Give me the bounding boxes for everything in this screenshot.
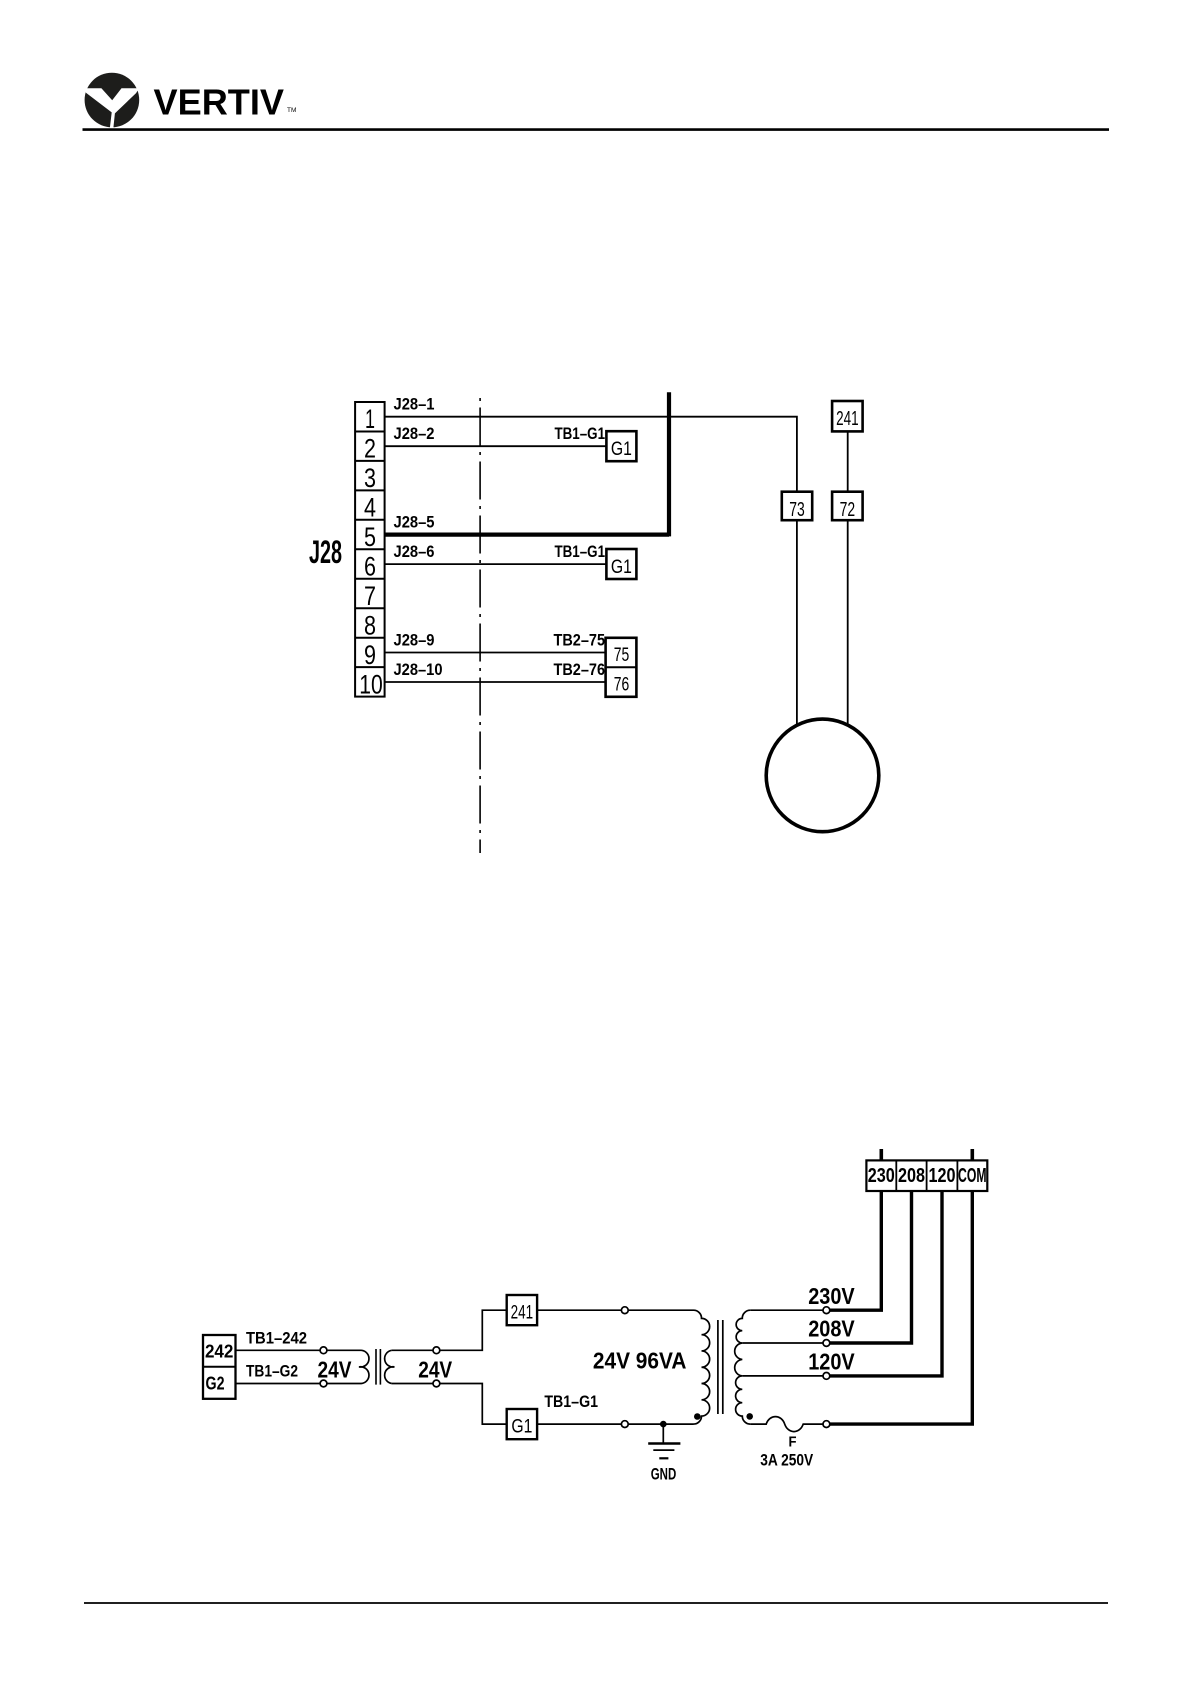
node circle 230V	[823, 1307, 830, 1314]
open terminal circles	[320, 1307, 830, 1428]
wire J28-1 to terminal 73	[385, 417, 797, 492]
Vertiv logo mark	[84, 73, 139, 129]
svg-text:TB1–G2: TB1–G2	[246, 1362, 298, 1381]
svg-text:COM: COM	[958, 1165, 987, 1187]
wire J28-5 thick with vertical riser	[385, 392, 669, 536]
svg-text:24V: 24V	[418, 1356, 453, 1382]
wire G1 to transformer primary	[537, 1423, 693, 1425]
wire J28-10 to terminal 76	[385, 681, 606, 683]
svg-text:J28–6: J28–6	[394, 542, 435, 561]
svg-text:72: 72	[840, 499, 856, 521]
connector plug arcs left	[359, 1350, 369, 1383]
terminal G1 (pin 6)	[606, 549, 636, 579]
wire labels upper	[394, 395, 606, 679]
svg-text:10: 10	[359, 669, 383, 699]
dash-dot center line	[479, 398, 481, 853]
svg-text:G1: G1	[511, 1416, 532, 1438]
svg-text:J28–9: J28–9	[394, 631, 435, 650]
svg-text:F: F	[789, 1435, 797, 1451]
transformer primary coil	[694, 1310, 710, 1424]
J28 pin numbers	[359, 404, 383, 699]
node circle 241 wire	[621, 1307, 628, 1314]
UPPER DIAGRAM	[385, 392, 848, 853]
terminal block 230/208/120/COM	[866, 1160, 987, 1191]
svg-text:241: 241	[511, 1302, 534, 1324]
svg-text:7: 7	[364, 581, 376, 611]
svg-text:120: 120	[929, 1165, 956, 1187]
svg-text:8: 8	[364, 611, 376, 641]
svg-text:1: 1	[365, 404, 375, 434]
thick wire 120V to terminal 120	[830, 1192, 942, 1376]
header rule	[83, 128, 1110, 131]
terminal 241 (lower)	[507, 1295, 537, 1325]
svg-text:242: 242	[205, 1341, 234, 1361]
thick wire 230V to terminal 230	[830, 1192, 882, 1310]
svg-text:J28–2: J28–2	[394, 424, 435, 443]
terminal block TB1 242/G2	[203, 1335, 236, 1399]
wire J28-2 to terminal G1	[385, 445, 607, 447]
wire to terminal G1 (lower)	[392, 1384, 507, 1425]
ground stem	[662, 1424, 664, 1443]
wire to terminal 241 (lower)	[392, 1310, 507, 1350]
terminal G1 (lower)	[507, 1409, 537, 1439]
svg-text:75: 75	[614, 644, 630, 666]
polarity dot secondary	[746, 1413, 753, 1420]
svg-text:73: 73	[789, 499, 805, 521]
motor circle	[766, 719, 879, 832]
terminal 72	[832, 492, 863, 521]
node circle TB1-242	[320, 1347, 327, 1354]
polarity dot primary	[694, 1413, 701, 1420]
transformer secondary coil	[735, 1310, 751, 1424]
node circle COM	[823, 1421, 830, 1428]
thick wire fuse to terminal COM	[830, 1192, 973, 1424]
wire from terminal 72 to motor	[847, 520, 849, 724]
wire J28-9 to terminal 75	[385, 652, 606, 654]
tap wire 208V	[742, 1342, 823, 1344]
svg-text:241: 241	[836, 408, 859, 430]
svg-text:9: 9	[364, 640, 376, 670]
svg-text:2: 2	[364, 434, 376, 464]
wire TB1-242	[236, 1349, 362, 1351]
svg-text:G1: G1	[611, 438, 632, 460]
node circle 208V	[823, 1340, 830, 1347]
node circle TB1-G2	[320, 1380, 327, 1387]
thick field wires lower	[830, 1149, 973, 1424]
wire J28-6 to terminal G1	[385, 563, 607, 565]
junction dot at ground	[660, 1421, 667, 1428]
wire from terminal 73 to motor	[796, 520, 798, 724]
svg-text:TB1–G1: TB1–G1	[544, 1392, 598, 1411]
node circle 120V	[823, 1373, 830, 1380]
svg-text:J28–1: J28–1	[394, 395, 435, 414]
svg-text:G1: G1	[611, 556, 632, 578]
terminal 241 (upper)	[832, 401, 863, 431]
svg-text:J28–5: J28–5	[394, 513, 435, 532]
svg-text:24V: 24V	[318, 1356, 353, 1382]
connector J28 body	[355, 402, 385, 697]
svg-text:VERTIV: VERTIV	[154, 82, 285, 123]
wire TB1-G2	[236, 1383, 362, 1385]
svg-text:TB1–G1: TB1–G1	[555, 542, 606, 561]
bottom rule	[84, 1602, 1108, 1604]
connector separator lines	[376, 1349, 380, 1385]
svg-text:TM: TM	[287, 107, 296, 114]
terminal block 75/76	[606, 638, 637, 697]
terminal 73	[782, 492, 812, 521]
svg-text:TB1–G1: TB1–G1	[555, 424, 606, 443]
fuse F squiggle	[750, 1417, 823, 1432]
terminal G1 (pin 2)	[606, 431, 636, 461]
svg-text:4: 4	[364, 493, 376, 523]
svg-text:3: 3	[364, 463, 376, 493]
connector socket arcs right	[385, 1350, 395, 1383]
svg-text:J28–10: J28–10	[394, 660, 443, 679]
wire 241 to transformer primary	[537, 1309, 693, 1311]
svg-text:5: 5	[364, 522, 376, 552]
node circle G1 wire	[621, 1421, 628, 1428]
ground symbol bars	[648, 1444, 680, 1459]
LOWER DIAGRAM	[236, 1310, 824, 1443]
svg-text:230V: 230V	[808, 1283, 855, 1309]
svg-text:TB1–242: TB1–242	[246, 1328, 307, 1347]
svg-text:TB2–75: TB2–75	[554, 631, 606, 650]
svg-text:120V: 120V	[808, 1349, 855, 1375]
svg-text:230: 230	[868, 1165, 895, 1187]
tap wire 230V	[750, 1309, 823, 1311]
wire terminal 241 to terminal 72	[847, 431, 849, 491]
tap wire 120V	[742, 1375, 823, 1377]
svg-text:208: 208	[898, 1165, 925, 1187]
transformer core	[718, 1320, 723, 1414]
stub above terminal COM	[970, 1149, 974, 1160]
svg-text:76: 76	[614, 674, 630, 696]
svg-text:J28: J28	[309, 534, 342, 570]
thick wire 208V to terminal 208	[830, 1192, 912, 1343]
svg-text:3A 250V: 3A 250V	[760, 1452, 813, 1470]
stub above terminal 230	[879, 1149, 883, 1160]
svg-text:G2: G2	[206, 1374, 225, 1394]
svg-text:24V 96VA: 24V 96VA	[593, 1348, 687, 1374]
svg-text:6: 6	[364, 552, 376, 582]
node circle right top	[433, 1347, 440, 1354]
svg-text:TB2–76: TB2–76	[554, 660, 606, 679]
svg-text:GND: GND	[651, 1465, 677, 1484]
svg-text:208V: 208V	[808, 1316, 855, 1342]
node circle right bottom	[433, 1380, 440, 1387]
